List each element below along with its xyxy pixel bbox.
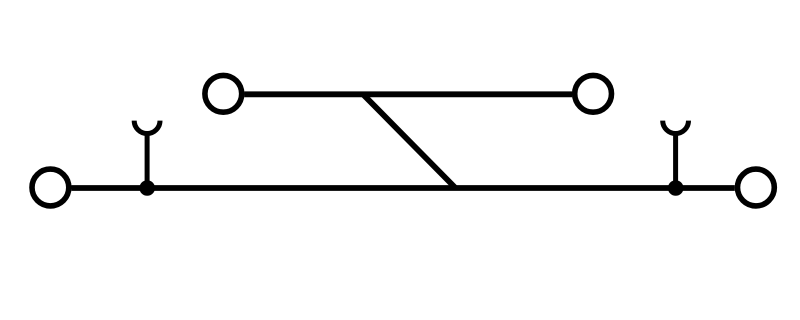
wire bottom rail xyxy=(71,185,734,191)
terminal circle bottom-right xyxy=(738,169,775,206)
terminal circle bottom-left xyxy=(32,169,69,206)
wire diagonal cross-connection xyxy=(363,94,456,188)
terminal circle top-right xyxy=(575,75,612,112)
junction dot right xyxy=(668,180,684,196)
terminal circle top-left xyxy=(205,75,242,112)
right test-tap fork arc xyxy=(663,121,689,134)
wire left test-tap stem xyxy=(145,133,150,188)
wire right test-tap stem xyxy=(673,133,678,188)
wire top rail xyxy=(244,91,572,97)
left test-tap fork arc xyxy=(134,121,160,134)
junction dot left xyxy=(139,180,155,196)
